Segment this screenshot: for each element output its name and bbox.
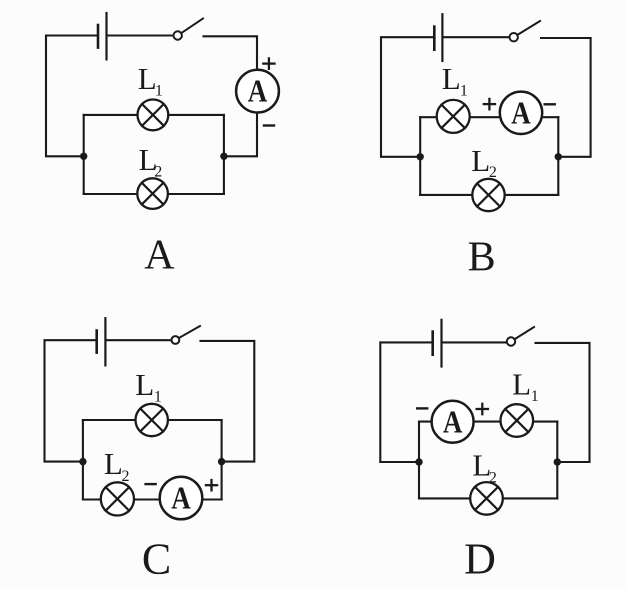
svg-text:D: D [464, 534, 496, 583]
svg-text:A: A [443, 403, 463, 439]
svg-text:L: L [512, 366, 531, 401]
caption B [468, 234, 496, 280]
svg-text:A: A [248, 73, 268, 109]
wire D: battery to top-left corner and down to left node [380, 342, 431, 462]
label L1 (circuit D) [512, 366, 539, 404]
wire C: parallel left vertical [82, 420, 84, 500]
svg-text:2: 2 [489, 164, 497, 181]
battery A: GB1 [98, 13, 107, 59]
polarity label + (B meter +) [484, 99, 495, 109]
battery B: GB1 [434, 14, 442, 61]
wire A: top branch [84, 114, 224, 116]
label L1 (circuit C) [135, 367, 162, 405]
node A left junction [80, 153, 87, 160]
wire D: top branch [419, 421, 557, 423]
label L2 (circuit A) [139, 142, 163, 181]
node C right junction [218, 458, 225, 465]
wire A: switch to ammeter top [204, 36, 258, 69]
svg-text:L: L [442, 61, 461, 96]
lamp D: L2 [470, 482, 503, 515]
svg-text:L: L [471, 143, 490, 178]
switch B: S1 [510, 21, 541, 41]
wire C: battery to top-left corner and down to left node [45, 340, 96, 461]
wire D: battery to switch [442, 341, 507, 343]
switch D: S1 [507, 327, 534, 346]
polarity label - (C meter -) [146, 483, 156, 485]
battery D: GB1 [433, 320, 442, 367]
wire B: parallel right vertical [557, 117, 559, 195]
caption A [144, 233, 175, 279]
wire C: bottom branch [83, 498, 222, 500]
svg-text:1: 1 [531, 388, 539, 405]
svg-text:1: 1 [155, 83, 163, 100]
svg-text:A: A [511, 94, 531, 130]
node C left junction [79, 458, 86, 465]
svg-text:2: 2 [489, 469, 497, 486]
node B right junction [555, 153, 562, 160]
caption D [464, 534, 496, 583]
lamp B: L2 [472, 179, 504, 211]
polarity label - (A meter -) [264, 124, 274, 126]
wire C: top branch [83, 419, 222, 421]
label L2 (circuit C) [104, 446, 130, 485]
wire A: parallel right vertical [223, 115, 225, 194]
wire D: switch to right node [536, 343, 590, 462]
polarity label - (B meter -) [545, 103, 555, 105]
polarity label - (D meter -) [417, 407, 427, 409]
lamp B: L1 [437, 100, 470, 133]
wire C: parallel right vertical [221, 420, 223, 500]
svg-text:2: 2 [154, 164, 162, 181]
node D right junction [554, 458, 561, 465]
svg-text:1: 1 [154, 388, 162, 405]
switch C: S1 [172, 326, 201, 344]
svg-text:L: L [135, 367, 154, 402]
lamp C: L2 [101, 482, 134, 515]
battery C: GB1 [97, 318, 106, 365]
lamp A: L1 [138, 100, 169, 131]
label L1 (circuit A) [138, 61, 163, 100]
ammeter D: meter [432, 401, 474, 443]
wire B: parallel left vertical [419, 117, 421, 195]
lamp D: L1 [501, 404, 534, 437]
svg-text:A: A [144, 233, 175, 279]
node A right junction [220, 153, 227, 160]
node D left junction [415, 458, 422, 465]
wire C: battery to switch [106, 339, 172, 341]
wire B: top branch [420, 116, 558, 118]
polarity label + (C meter +) [206, 480, 217, 490]
ammeter C: meter [160, 477, 203, 520]
svg-text:2: 2 [122, 468, 130, 485]
ammeter B: meter [500, 92, 542, 134]
polarity label + (A meter +) [263, 58, 274, 68]
svg-text:L: L [138, 61, 157, 96]
wire A: battery to top-left corner and down to left node [46, 36, 97, 157]
caption C [142, 535, 171, 584]
svg-text:C: C [142, 535, 171, 584]
wire D: parallel right vertical [556, 422, 558, 499]
svg-text:L: L [104, 446, 123, 481]
wire C: switch to right node [201, 341, 255, 462]
wire D: parallel left vertical [418, 422, 420, 499]
label L2 (circuit D) [472, 448, 497, 487]
label L1 (circuit B) [442, 61, 468, 99]
svg-text:1: 1 [460, 82, 468, 99]
lamp C: L1 [136, 404, 168, 436]
wire B: bottom branch [420, 194, 558, 196]
wire A: bottom branch [84, 193, 224, 195]
node B left junction [417, 153, 424, 160]
polarity label + (D meter +) [477, 404, 488, 414]
wire D: bottom branch [419, 497, 557, 499]
label L2 (circuit B) [471, 143, 497, 181]
wire A: ammeter bottom to right node [224, 113, 257, 157]
switch A: S1 [174, 19, 204, 40]
wire B: battery to switch [444, 36, 510, 38]
wire A: parallel left vertical [83, 115, 85, 194]
wire B: switch to right node [541, 38, 591, 157]
ammeter A: meter [236, 70, 279, 113]
svg-text:A: A [171, 480, 191, 516]
lamp A: L2 [137, 178, 168, 209]
wire A: battery to switch [107, 34, 173, 36]
wire B: battery to top-left corner and down to left node [381, 37, 434, 157]
svg-text:B: B [468, 234, 496, 280]
